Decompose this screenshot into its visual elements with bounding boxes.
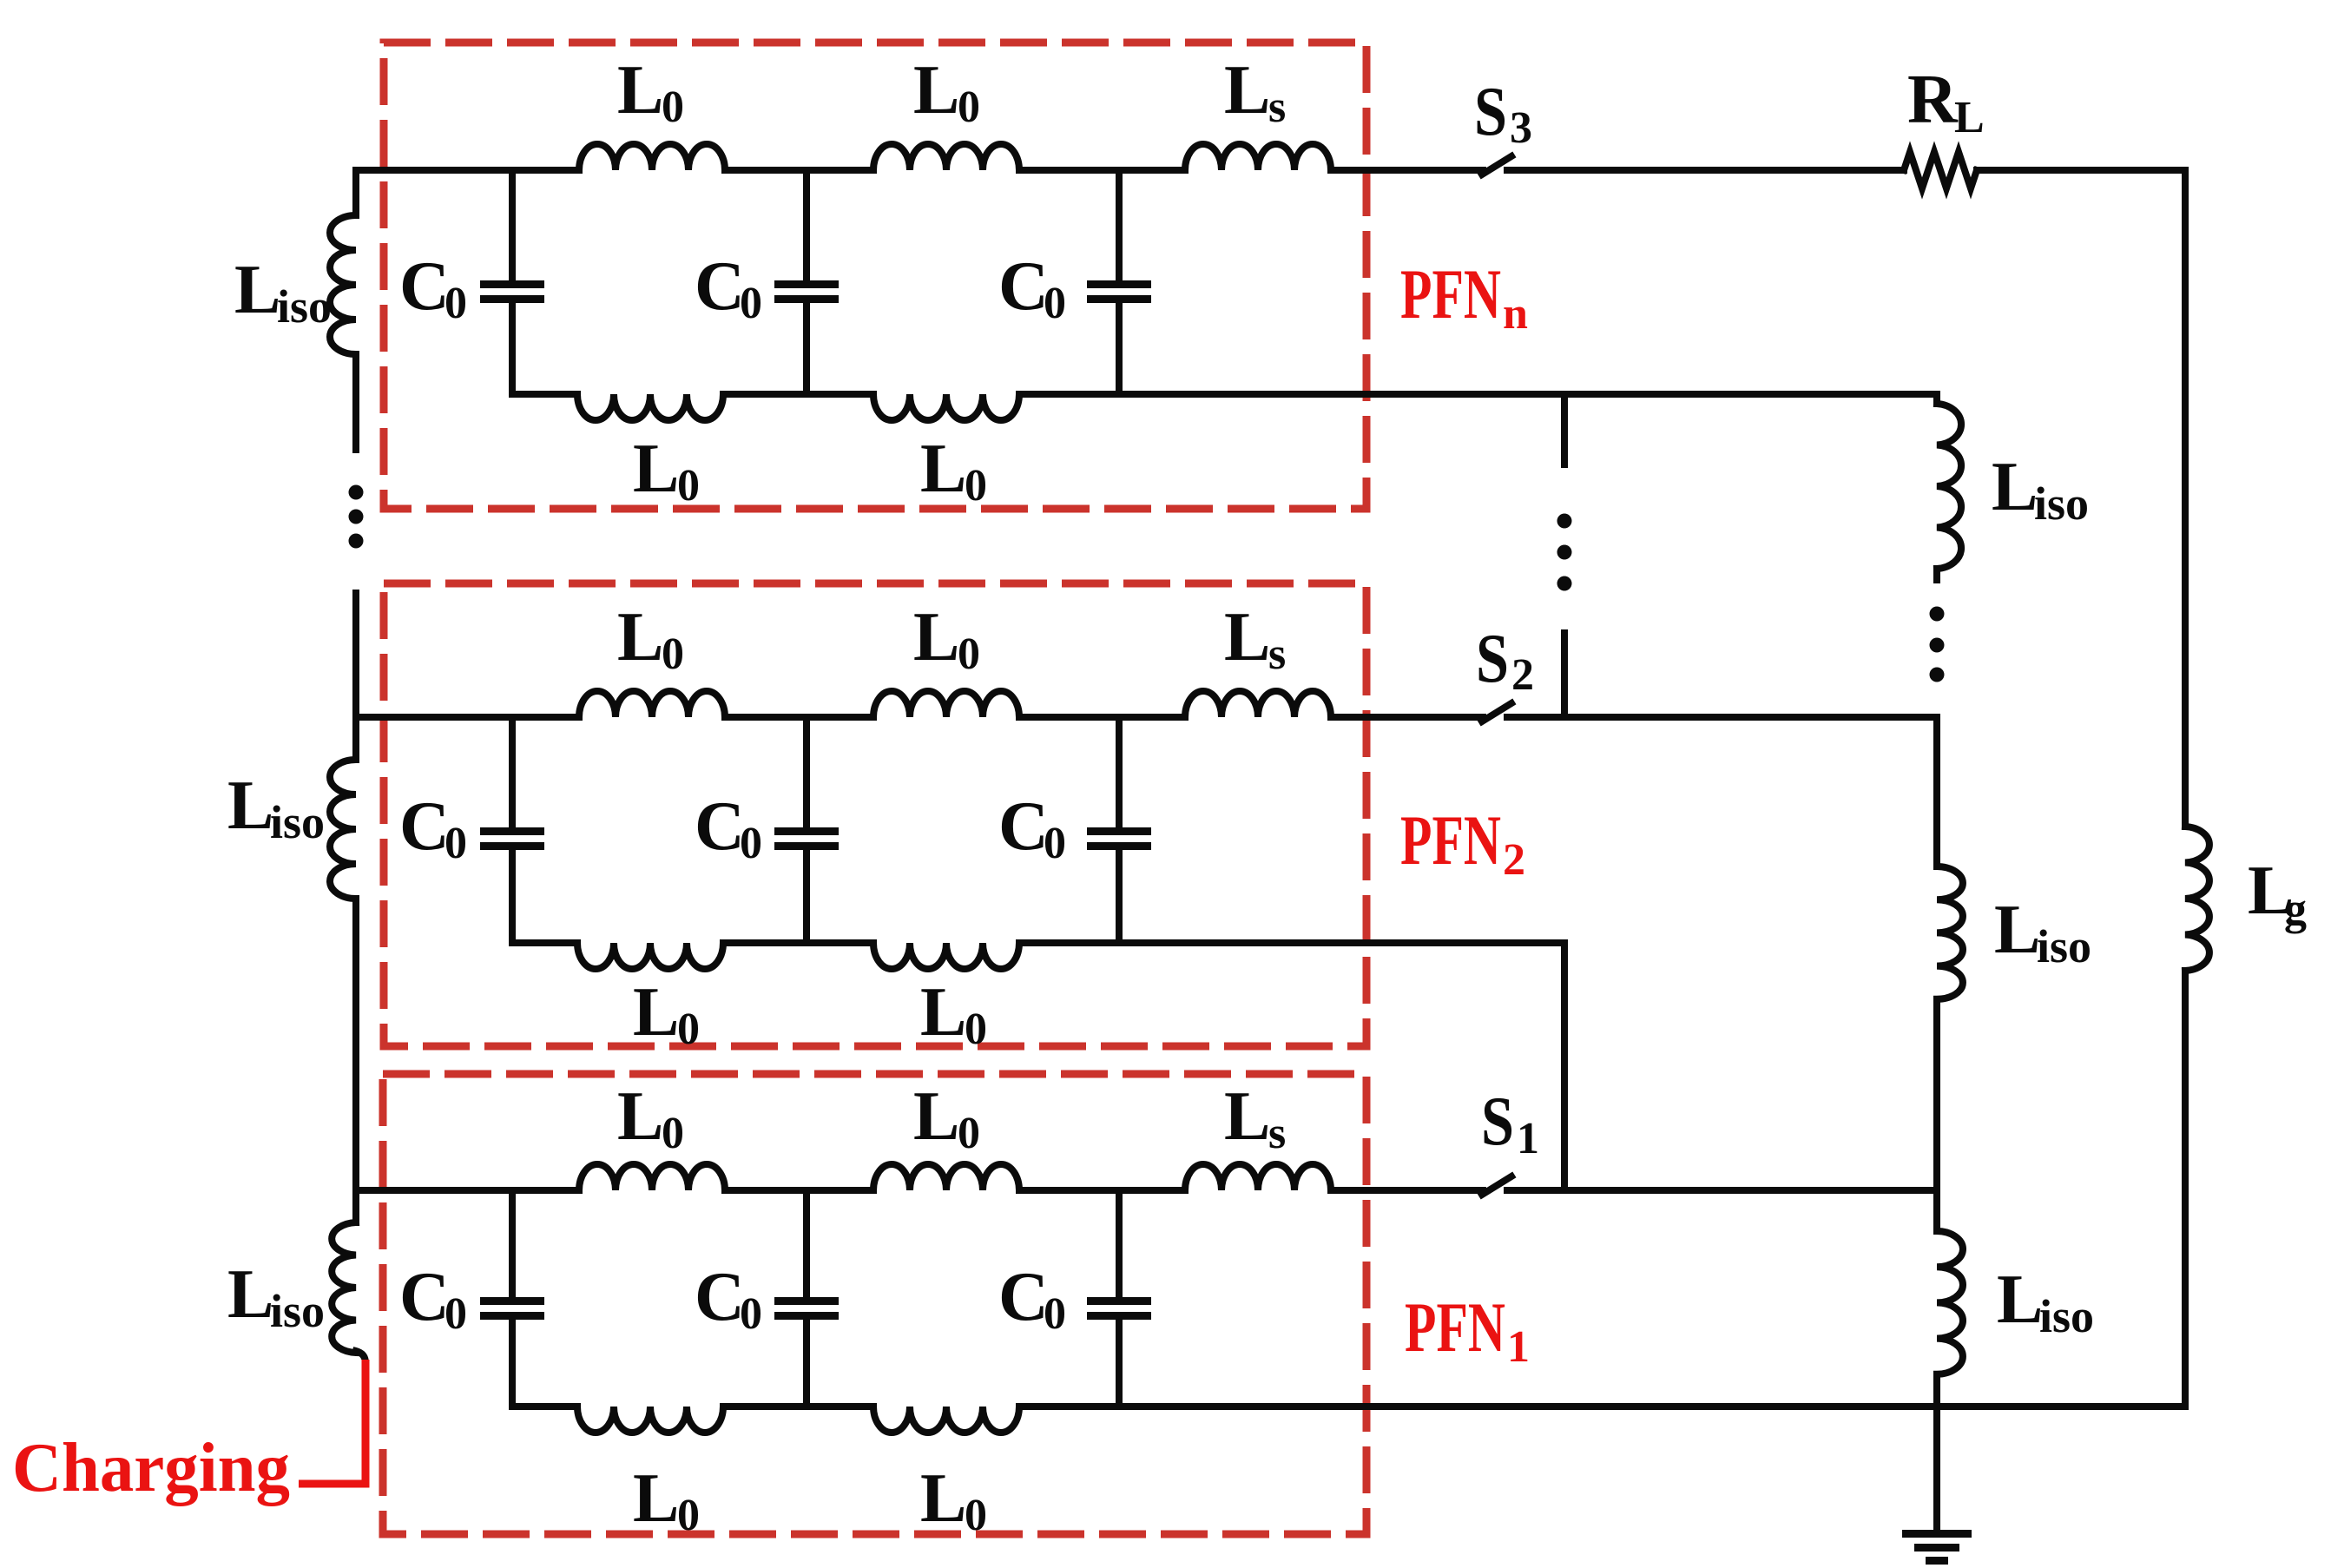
svg-text:C: C [695,788,745,865]
svg-text:0: 0 [677,1491,700,1540]
svg-text:g: g [2284,885,2307,934]
wire: charging lead (red) [299,1360,365,1484]
continuation dots (middle bus) [1557,514,1572,529]
capacitor C0 #2 (PFN_1) [803,1190,810,1298]
continuation dots (right bus) [1930,607,1945,622]
svg-text:0: 0 [1044,1289,1066,1339]
wire [352,354,359,450]
svg-text:iso: iso [2039,1290,2094,1342]
svg-text:L: L [633,974,679,1051]
svg-text:L: L [920,431,966,507]
switch S1 [1482,1176,1511,1195]
svg-text:S: S [1481,1084,1514,1160]
svg-text:L: L [913,599,959,675]
inductor L0 (PFN_2 top left) [579,691,725,717]
svg-text:C: C [998,1259,1049,1335]
capacitor C0 #2 (PFN_2) [803,717,810,828]
wire: middle bus stub from PFN_n bottom rail [1561,394,1568,464]
inductor Liso (right middle) [1937,866,1963,999]
svg-text:s: s [1268,629,1286,679]
svg-text:0: 0 [740,279,762,328]
svg-text:L: L [617,1078,663,1155]
wire: PFN_2 top rail segments [356,714,579,721]
wire: PFN_2 bottom rail to middle bus corner down to S1 rail [1019,943,1564,1190]
continuation dots (left rail) [349,485,364,500]
inductor L0 (PFN_1 bottom right) [873,1407,1019,1433]
svg-text:L: L [913,52,959,128]
wire [1933,999,1940,1231]
inductor L0 (PFN_1 top left) [579,1164,725,1190]
svg-text:L: L [617,52,663,128]
svg-text:L: L [633,1460,679,1537]
svg-text:0: 0 [958,629,980,679]
svg-text:0: 0 [965,1491,987,1540]
wire: S2 corner down [1933,717,1940,866]
ground [1902,1530,1972,1538]
svg-text:Charging: Charging [12,1430,290,1506]
svg-text:1: 1 [1517,1114,1539,1163]
svg-text:S: S [1476,621,1509,697]
svg-text:L: L [913,1078,959,1155]
inductor Ls (PFN_2) [1185,691,1331,717]
svg-text:iso: iso [270,1285,325,1337]
wire [1933,1374,1940,1407]
svg-text:0: 0 [677,1005,700,1054]
svg-text:C: C [998,788,1049,865]
wire: PFN_n top rail segments [356,167,579,174]
svg-text:0: 0 [958,1109,980,1158]
svg-text:PFN: PFN [1400,800,1501,880]
svg-text:L: L [920,1460,966,1537]
wire: ground stem [1933,1407,1940,1531]
capacitor C0 #1 (PFN_1) [509,1190,516,1298]
wire: PFN_1 bottom rail (to right bus) [512,1403,577,1410]
inductor L0 (PFN_2 bottom right) [873,943,1019,969]
inductor Lg [2185,827,2209,971]
svg-text:0: 0 [662,629,684,679]
capacitor C0 #1 (PFN_n) [509,170,516,281]
inductor L0 (PFN_1 top right) [873,1164,1019,1190]
wire: S1 output rail to right bus [1507,1187,1937,1194]
wire: PFN_1 top rail segments [356,1187,579,1194]
inductor L0 (PFN_2 bottom left) [577,943,723,969]
inductor Liso (left middle) [330,760,356,899]
wire: left rail top segment [352,170,359,215]
svg-text:0: 0 [740,1289,762,1339]
svg-text:iso: iso [2037,920,2091,972]
wire [352,899,359,1222]
svg-text:R: R [1907,62,1959,138]
svg-text:C: C [695,248,745,325]
svg-text:0: 0 [740,819,762,868]
svg-text:0: 0 [1044,819,1066,868]
PFN_2 dashed box [384,583,1366,1046]
svg-text:C: C [399,788,450,865]
wire: RL to right bus corner [1977,170,2185,827]
svg-text:L: L [1994,892,2040,968]
svg-text:0: 0 [444,819,467,868]
svg-text:s: s [1268,82,1286,132]
inductor Ls (PFN_1) [1185,1164,1331,1190]
switch S2 [1482,703,1511,721]
svg-text:iso: iso [270,796,325,848]
svg-text:0: 0 [965,461,987,511]
svg-text:0: 0 [662,1109,684,1158]
svg-text:0: 0 [677,461,700,511]
svg-text:L: L [227,768,273,844]
svg-text:1: 1 [1507,1322,1530,1372]
inductor Liso (left bottom) [332,1222,356,1353]
inductor L0 (PFN_n top right) [873,144,1019,170]
svg-text:0: 0 [444,279,467,328]
svg-text:C: C [695,1259,745,1335]
svg-text:L: L [227,1256,273,1333]
wire: PFN_2 bottom rail [512,939,577,946]
wire: hook from Liso to charging lead [356,1351,365,1363]
svg-text:0: 0 [444,1289,467,1339]
inductor L0 (PFN_n bottom right) [873,394,1019,420]
inductor L0 (PFN_n top left) [579,144,725,170]
svg-text:0: 0 [1044,279,1066,328]
svg-text:PFN: PFN [1400,254,1501,333]
wire: PFN_n bottom rail [512,391,577,398]
svg-text:s: s [1268,1109,1286,1158]
svg-text:L: L [234,252,280,328]
capacitor C0 #2 (PFN_n) [803,170,810,281]
svg-text:iso: iso [277,280,332,333]
switch S3 [1482,156,1511,175]
inductor Liso (right bottom) [1937,1231,1963,1374]
svg-text:L: L [1224,52,1270,128]
wire: PFN_n output corner down [1933,394,1940,404]
svg-text:3: 3 [1510,103,1532,153]
capacitor C0 #3 (PFN_1) [1116,1190,1123,1298]
capacitor C0 #3 (PFN_n) [1116,170,1123,281]
resistor RL [1904,152,1977,188]
svg-text:L: L [1992,449,2038,525]
svg-text:C: C [399,248,450,325]
inductor Ls (PFN_n) [1185,144,1331,170]
inductor Liso (right top) [1937,404,1961,569]
svg-text:L: L [1954,93,1985,142]
svg-text:L: L [617,599,663,675]
svg-text:2: 2 [1511,650,1534,700]
svg-text:L: L [1224,599,1270,675]
wire [1933,569,1940,580]
svg-text:L: L [1997,1262,2043,1338]
inductor L0 (PFN_1 bottom left) [577,1407,723,1433]
svg-text:0: 0 [662,82,684,132]
PFN_1 dashed box [383,1074,1366,1534]
wire: S2 output rail to right bus [1507,714,1937,721]
wire: right bus down to bottom rail [2182,971,2189,1407]
capacitor C0 #1 (PFN_2) [509,717,516,828]
svg-text:0: 0 [965,1005,987,1054]
svg-text:L: L [633,431,679,507]
svg-text:S: S [1474,74,1507,150]
inductor L0 (PFN_n bottom left) [577,394,723,420]
svg-text:L: L [920,974,966,1051]
svg-text:PFN: PFN [1405,1288,1505,1367]
inductor L0 (PFN_2 top right) [873,691,1019,717]
capacitor C0 #3 (PFN_2) [1116,717,1123,828]
svg-text:iso: iso [2034,478,2089,530]
svg-text:0: 0 [958,82,980,132]
wire [352,593,359,760]
svg-text:C: C [998,248,1049,325]
wire: S3 output to RL [1507,167,1904,174]
svg-text:C: C [399,1259,450,1335]
inductor Liso (left top) [330,215,356,354]
svg-text:n: n [1503,289,1528,339]
wire: middle bus into S2 rail [1561,633,1568,717]
svg-text:2: 2 [1503,835,1525,885]
svg-text:L: L [1224,1078,1270,1155]
PFN_n dashed box [384,43,1366,509]
